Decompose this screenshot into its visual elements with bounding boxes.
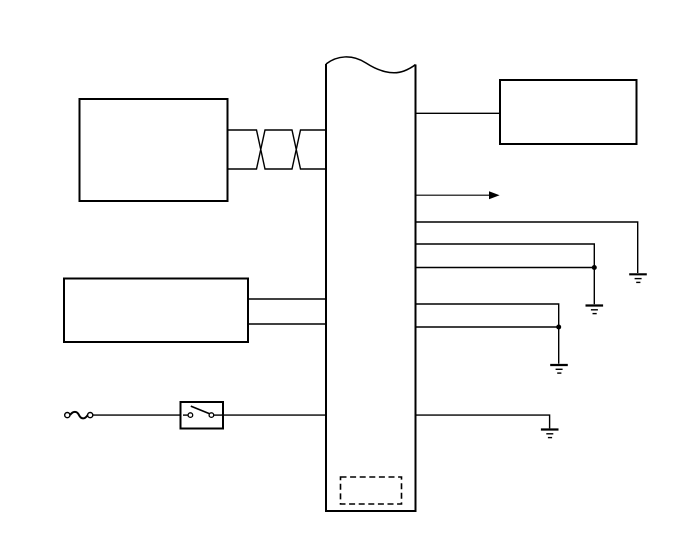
wire: node N1 to ground G2 — [593, 268, 595, 305]
wire: switch to module — [221, 414, 326, 416]
ground G4 — [541, 430, 559, 438]
twisted-pair wire (conductor B) — [228, 130, 327, 169]
wire: module to node N1 — [417, 244, 595, 266]
ground G1 — [629, 274, 647, 282]
block: lower-left device — [64, 279, 248, 343]
main harness module (broken/wavy top) — [326, 57, 416, 511]
wire: lower-left device upper lead — [248, 298, 326, 300]
wire: node N2 to ground G3 — [558, 327, 560, 364]
wire: connector to switch — [93, 414, 188, 416]
switch S enclosure — [181, 402, 224, 429]
ground G2 — [586, 306, 604, 314]
signal output arrow — [417, 191, 500, 199]
switch left contact — [183, 413, 193, 418]
wire: module to node N1 (second lead) — [417, 267, 595, 269]
block: top-left device — [80, 99, 228, 201]
dashed connector region inside module — [341, 477, 402, 504]
switch lever (open) — [191, 406, 210, 414]
wire: lower-left device lower lead — [248, 323, 326, 325]
junction node N2 — [556, 325, 561, 330]
wire: module to ground G1 — [417, 222, 638, 273]
junction node N1 — [592, 265, 597, 270]
inline connector (circle-squiggle-circle) — [65, 412, 93, 418]
wire: module to node N2 (second lead) — [417, 326, 559, 328]
ground G3 — [550, 365, 568, 373]
switch right contact — [209, 413, 221, 418]
block: top-right device — [500, 80, 637, 144]
wire: module to ground G4 — [417, 415, 550, 428]
wire: module to node N2 — [417, 304, 559, 326]
wire: module to top-right device — [416, 112, 501, 114]
twisted-pair wire (conductor A) — [228, 130, 327, 169]
